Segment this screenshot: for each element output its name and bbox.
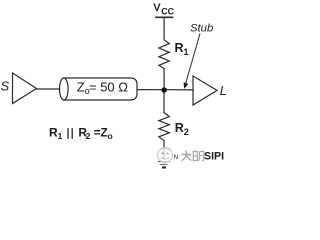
wire node to load bbox=[164, 89, 193, 91]
svg-text:2: 2 bbox=[86, 131, 91, 141]
resistor R1 zigzag bbox=[159, 40, 169, 69]
load buffer L triangle bbox=[193, 76, 217, 105]
svg-text:R: R bbox=[175, 121, 184, 135]
svg-text:Z: Z bbox=[77, 79, 85, 94]
svg-text:S: S bbox=[1, 79, 10, 94]
svg-text:= 50 Ω: = 50 Ω bbox=[89, 79, 128, 94]
svg-text:1: 1 bbox=[184, 47, 189, 57]
wire R1 to node bbox=[163, 69, 165, 90]
wire coax to node bbox=[137, 89, 164, 91]
resistor R2 zigzag bbox=[159, 113, 170, 141]
wire Vcc to R1 bbox=[163, 17, 165, 40]
svg-text:V: V bbox=[153, 2, 161, 14]
svg-text:N: N bbox=[174, 155, 178, 161]
stub arrowhead bbox=[184, 82, 189, 89]
svg-text:1: 1 bbox=[58, 131, 63, 141]
wire node to R2 bbox=[163, 90, 165, 113]
svg-text:L: L bbox=[220, 83, 226, 98]
source buffer S triangle bbox=[13, 73, 37, 104]
coax transmission line body bbox=[64, 78, 137, 100]
node junction dot bbox=[162, 87, 167, 92]
svg-text:Stub: Stub bbox=[190, 22, 213, 34]
svg-text:R: R bbox=[175, 41, 184, 55]
ground symbol bbox=[158, 162, 171, 168]
formula R1 || R2 = Zo bbox=[49, 125, 113, 141]
svg-text:o: o bbox=[108, 131, 113, 141]
watermark character Ming bbox=[193, 152, 204, 161]
watermark logo blob bbox=[158, 148, 173, 163]
svg-text:CC: CC bbox=[161, 6, 174, 16]
svg-text:2: 2 bbox=[184, 127, 189, 137]
coax left end ellipse bbox=[60, 78, 69, 100]
wire source tip to coax bbox=[37, 88, 60, 90]
watermark character Da bbox=[182, 151, 192, 161]
wire R2 to ground bbox=[163, 141, 165, 159]
svg-text:SIPI: SIPI bbox=[204, 151, 224, 163]
stub leader line bbox=[186, 34, 201, 85]
Vcc rail bar bbox=[156, 16, 173, 18]
